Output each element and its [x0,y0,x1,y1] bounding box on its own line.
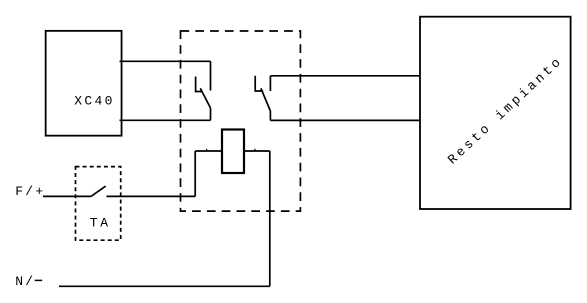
wire contact K2 to Resto impianto top [270,75,419,77]
svg-text:Resto impianto: Resto impianto [445,53,566,167]
wire coil left lead [195,150,222,152]
contact K1 blade [200,88,210,108]
svg-text:N/: N/ [15,274,35,289]
wire coil right vertical to N/- [269,151,271,286]
wire coil left vertical to F/+ [194,151,196,196]
wire coil right lead [244,150,270,152]
switch TA blade [91,186,106,196]
pin tick coil left [206,149,208,151]
svg-text:XC40: XC40 [74,94,114,109]
box Resto impianto [420,17,571,209]
contact K2 blade [261,88,271,111]
relay coil K [222,130,244,174]
dashed box TA [76,167,121,241]
contact K2 fixed contact hook [255,76,263,91]
contact K2 top lead [269,76,271,91]
wire XC40 top to contact K1 [120,60,211,62]
wire F/+ to switch TA [43,195,91,197]
box XC40 [46,31,122,136]
label N/- [15,274,42,289]
wire XC40 bottom to contact K1 [120,119,211,121]
contact K1 top lead [210,61,212,90]
contact K1 fixed contact hook [196,77,202,92]
contact K2 bottom lead [269,111,271,120]
wire contact K2 to Resto impianto bottom [270,119,419,121]
wire switch TA to coil [107,195,196,197]
svg-text:F/+: F/+ [15,184,45,199]
dashed relay module box [181,31,301,211]
wire N/- [59,285,270,287]
contact K1 bottom lead [210,108,212,120]
pin tick coil right [254,149,256,151]
svg-text:TA: TA [90,215,111,230]
